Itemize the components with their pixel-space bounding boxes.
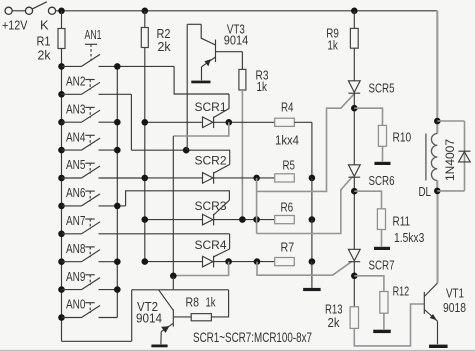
wire: to R10 <box>354 108 382 125</box>
thyristor SCR4 <box>203 256 213 267</box>
svg-text:1k: 1k <box>206 295 216 310</box>
node: +12V junction <box>58 8 65 15</box>
svg-text:VT1: VT1 <box>446 286 464 301</box>
svg-text:SCR2: SCR2 <box>195 153 227 167</box>
wire: left button bus <box>61 66 63 341</box>
svg-text:R7: R7 <box>281 240 295 255</box>
thyristor SCR3 <box>203 214 213 225</box>
svg-text:R4: R4 <box>281 100 294 115</box>
svg-text:SCR4: SCR4 <box>195 238 227 252</box>
wire: SCR1 cathode <box>214 121 275 123</box>
wire: SCR anode bus <box>144 48 146 262</box>
svg-text:SCR5: SCR5 <box>369 81 395 96</box>
wire: VT3 base <box>216 51 243 53</box>
resistor R2 <box>142 8 149 15</box>
svg-text:AN8: AN8 <box>66 241 86 256</box>
wire <box>436 181 438 191</box>
svg-text:AN6: AN6 <box>66 185 86 200</box>
thyristor SCR7 <box>348 249 360 260</box>
resistor R12 <box>380 292 388 314</box>
svg-text:1k: 1k <box>257 79 268 94</box>
resistor R9 <box>351 8 358 15</box>
wire: AN1 to SCR1 gate <box>174 66 229 94</box>
wire <box>353 177 355 249</box>
resistor R10 <box>378 125 386 146</box>
node R5 right <box>309 175 316 182</box>
wire <box>353 262 355 307</box>
resistor R3 <box>241 52 243 70</box>
relay core bar <box>425 134 427 181</box>
wire: R8 right loop <box>211 290 228 317</box>
wire: AN2 riser <box>130 94 132 150</box>
ground (R11) <box>374 247 390 250</box>
switch K <box>25 7 32 14</box>
ground (R7) <box>303 288 321 291</box>
wire: SCR2 gate line <box>131 150 229 164</box>
svg-text:1.5kx3: 1.5kx3 <box>394 230 424 245</box>
thyristor SCR1 <box>203 117 213 128</box>
wire: SCR4 anode <box>145 261 203 263</box>
wire <box>99 289 118 291</box>
ground (R12) <box>373 330 391 333</box>
wire <box>172 276 174 290</box>
wire <box>353 93 355 165</box>
wire <box>12 10 26 12</box>
pushbutton AN6 <box>58 203 65 210</box>
resistor R13 <box>350 307 358 329</box>
thyristor SCR2 <box>203 173 213 184</box>
transistor VT1 <box>423 292 425 314</box>
wire: to R12 <box>354 276 384 292</box>
wire: SCR7 gate net <box>257 261 352 275</box>
svg-text:2k: 2k <box>158 39 172 54</box>
wire: SCR3 anode <box>145 219 203 221</box>
wire: R3 to SCR3 cathode <box>241 90 243 220</box>
wire: VT3 collector line <box>186 24 188 150</box>
svg-text:R6: R6 <box>281 199 294 214</box>
wire <box>99 261 118 263</box>
node: bus taps <box>114 63 121 70</box>
wire: to R11 <box>354 191 381 209</box>
ground (VT3 emitter) <box>191 81 210 84</box>
svg-text:2k: 2k <box>328 315 341 330</box>
svg-text:SCR1~SCR7:MCR100-8x7: SCR1~SCR7:MCR100-8x7 <box>193 329 312 345</box>
gate lead SCR3 <box>214 200 230 215</box>
svg-text:SCR6: SCR6 <box>369 173 395 188</box>
wire <box>99 121 118 123</box>
pushbutton AN9 <box>58 286 65 293</box>
wire: bottom-left rail <box>62 340 132 342</box>
wire <box>99 65 175 67</box>
svg-text:+12V: +12V <box>2 18 28 33</box>
svg-text:9018: 9018 <box>443 300 466 315</box>
node: VT3 collector junction <box>183 147 190 154</box>
gate lead SCR2 <box>214 164 230 173</box>
relay coil DL <box>436 11 438 134</box>
wire <box>99 149 118 151</box>
svg-text:AN2: AN2 <box>66 74 86 89</box>
svg-text:R10: R10 <box>393 130 412 145</box>
ground (R10) <box>375 162 391 165</box>
wire <box>99 233 230 235</box>
pushbutton AN7 <box>58 231 65 238</box>
wire: SCR4 cathode <box>214 261 275 263</box>
svg-text:AN9: AN9 <box>66 269 86 284</box>
thyristor SCR5 <box>348 81 360 93</box>
svg-text:1kx4: 1kx4 <box>275 132 299 147</box>
svg-text:1k: 1k <box>327 38 338 53</box>
svg-text:SCR7: SCR7 <box>369 257 395 272</box>
wire: R7 right to ground <box>311 262 313 288</box>
wire: R4 right <box>294 121 312 123</box>
svg-text:R5: R5 <box>283 158 296 173</box>
resistor R4 <box>275 118 295 126</box>
wire: AN0 row to bus <box>99 317 118 319</box>
wire: right column R6-R7 <box>311 220 313 262</box>
svg-text:AN5: AN5 <box>66 157 86 172</box>
svg-text:2k: 2k <box>38 48 52 63</box>
svg-text:R1: R1 <box>37 34 51 49</box>
resistor R5 <box>275 174 295 182</box>
svg-text:9014: 9014 <box>136 310 162 325</box>
pushbutton AN2 <box>58 91 65 98</box>
svg-text:R11: R11 <box>393 214 411 229</box>
wire: SCR1 anode <box>145 121 203 123</box>
wire: AN6 to SCR3 gate <box>126 191 230 206</box>
wire: VT1 collector <box>436 191 438 283</box>
wire: SCR6 gate net <box>257 176 353 233</box>
wire: SCR1 cathode drop to VT2 line <box>173 122 229 136</box>
gate lead SCR4 <box>214 249 230 257</box>
wire: AN7 to SCR4 gate <box>229 234 231 249</box>
ground (VT1 emitter) <box>429 345 448 348</box>
diode 1N4007 <box>437 120 464 122</box>
pushbutton AN3 <box>58 119 65 126</box>
pushbutton AN4 <box>58 147 65 154</box>
svg-text:9014: 9014 <box>224 32 249 47</box>
wire <box>99 205 126 207</box>
svg-text:R12: R12 <box>393 284 410 299</box>
wire: SCR3 cathode <box>214 219 275 221</box>
gate lead SCR1 <box>214 94 229 118</box>
wire: bottom right rail to VT1 base <box>354 304 424 346</box>
thyristor SCR6 <box>348 165 360 177</box>
svg-text:1N4007: 1N4007 <box>443 139 457 181</box>
node: VT2 collector junction <box>170 273 177 280</box>
pushbutton AN5 <box>58 175 65 182</box>
wire: second bus <box>116 66 118 317</box>
bottom scan edge <box>0 349 475 351</box>
svg-text:AN3: AN3 <box>66 101 86 116</box>
resistor R8 <box>173 316 191 318</box>
wire: SCR2cath-R6 tie column <box>256 178 258 234</box>
ground (VT2 emitter) <box>151 345 167 348</box>
svg-text:DL: DL <box>419 184 432 199</box>
wire: SCR2 cathode <box>214 177 275 179</box>
svg-text:K: K <box>40 18 49 33</box>
terminal +12V <box>5 7 12 14</box>
transistor VT3 <box>215 40 217 63</box>
resistor R7 <box>275 258 295 266</box>
svg-text:AN0: AN0 <box>66 297 86 312</box>
svg-text:R8: R8 <box>186 295 200 310</box>
wire <box>99 93 132 95</box>
wire: right column R5-R6 <box>311 178 313 220</box>
resistor R11 <box>377 209 385 230</box>
node R6 right <box>309 216 316 223</box>
svg-text:AN4: AN4 <box>66 129 86 144</box>
pushbutton AN1 <box>58 63 65 70</box>
svg-text:SCR3: SCR3 <box>195 199 227 213</box>
resistor R6 <box>275 216 295 224</box>
pushbutton AN0 <box>58 314 65 321</box>
svg-text:SCR1: SCR1 <box>195 100 227 114</box>
wire <box>99 177 145 179</box>
node R7 right <box>309 258 316 265</box>
wire: SCR2 anode <box>145 177 203 179</box>
wire: SCR5 gate net <box>257 94 355 192</box>
wire: SCR4 cathode to VT2 node <box>173 262 228 276</box>
svg-text:AN7: AN7 <box>66 213 86 228</box>
pushbutton AN8 <box>58 258 65 265</box>
transistor VT2 <box>172 309 174 326</box>
resistor R1 <box>61 11 63 29</box>
svg-text:AN1: AN1 <box>85 27 102 42</box>
wire: line to VT2 collector <box>172 136 174 276</box>
wire: VT2 collector rail <box>132 289 229 291</box>
wire: top +12V rail <box>55 10 437 12</box>
